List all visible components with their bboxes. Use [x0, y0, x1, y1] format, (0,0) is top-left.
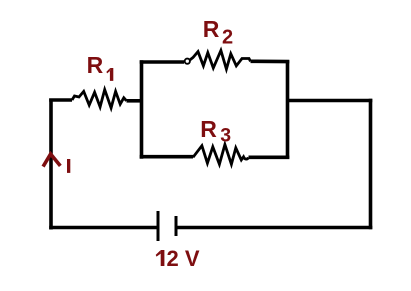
wire: top-left horizontal to R1 [49, 98, 72, 102]
label I [67, 159, 70, 173]
svg-text:R: R [200, 116, 217, 142]
label 12 V [156, 250, 165, 266]
svg-text:2 V: 2 V [167, 246, 200, 271]
wire: parallel box right vertical [286, 60, 290, 158]
wire: bottom branch left segment [140, 155, 193, 159]
current arrow [44, 154, 59, 165]
wire: bottom branch right segment [249, 156, 290, 160]
svg-text:R: R [203, 16, 220, 42]
wire: middle right horizontal [288, 99, 373, 103]
wire: top branch left segment [140, 60, 184, 64]
resistor R3 [193, 145, 249, 165]
resistor R2 [185, 59, 190, 64]
battery plate long (left) [157, 211, 160, 241]
wire: bottom right horizontal [176, 226, 372, 230]
battery plate short (right) [175, 216, 178, 236]
wire: right vertical [369, 99, 373, 229]
wire: parallel box left vertical [140, 60, 144, 158]
wire: left vertical [49, 99, 53, 230]
wire: bottom left horizontal [49, 226, 158, 230]
wire: top branch right segment [251, 59, 290, 63]
svg-text:R: R [87, 52, 104, 78]
wire: R1 to parallel box [127, 99, 142, 103]
resistor R1 [72, 90, 127, 108]
svg-text:2: 2 [222, 27, 233, 49]
svg-text:3: 3 [220, 125, 231, 147]
